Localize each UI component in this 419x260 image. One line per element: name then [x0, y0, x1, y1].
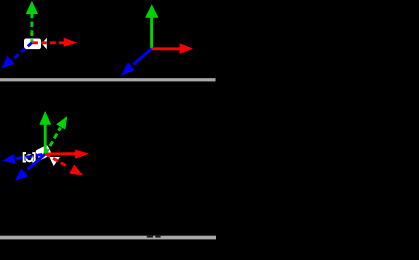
- camera frame z-axis dashed (green, up) shaft: [30, 14, 33, 43]
- body frame z-axis solid (blue, down-left) shaft: [28, 154, 46, 170]
- body frame x-axis (red) arrowhead: [75, 150, 89, 159]
- rotated camera z-axis dashed (blue) arrowhead: [2, 154, 16, 164]
- body frame y-axis (green) arrowhead: [39, 111, 51, 125]
- camera frame y-axis dashed (blue, down-left) shaft: [13, 43, 32, 60]
- world frame z-axis solid (blue, down-left) shaft: [134, 49, 152, 65]
- world frame y-axis (green) arrowhead: [145, 4, 158, 17]
- camera frame z-axis dashed (green) arrowhead: [26, 1, 38, 14]
- ground line (bottom scene): [0, 236, 216, 240]
- rotated camera y-axis dashed (green, up-right) shaft: [45, 128, 60, 154]
- frame label [c] : letter c: [26, 155, 32, 161]
- body frame z-axis (blue) arrowhead: [15, 168, 28, 181]
- frame label [c] : left bracket: [23, 152, 26, 162]
- world frame z-axis (blue) arrowhead: [121, 62, 135, 75]
- camera frame x-axis dashed (red, right) shaft: [32, 41, 64, 44]
- ground line (top scene): [0, 78, 216, 81]
- camera frame y-axis dashed (blue) arrowhead: [1, 56, 14, 69]
- camera icon (top-left, facing right) body: [24, 39, 41, 50]
- rotated camera x-axis dashed (red, down-right) shaft: [45, 154, 68, 167]
- camera icon (top-left) lens triangle: [42, 38, 47, 50]
- rotated camera z-axis dashed (blue, left) shaft: [15, 154, 46, 159]
- body frame y-axis solid (green, up) shaft: [44, 125, 47, 154]
- rotated camera x-axis dashed (red) arrowhead: [69, 165, 83, 176]
- camera icon (bottom, tilted) body: [35, 145, 52, 161]
- world frame x-axis (red) arrowhead: [180, 43, 193, 54]
- world frame x-axis solid (red, right) shaft: [152, 47, 181, 50]
- dark notch 1 on bottom ground line: [147, 236, 153, 238]
- camera frame x-axis dashed (red) arrowhead: [64, 38, 77, 47]
- camera icon (bottom) lens triangle: [49, 157, 60, 166]
- body frame x-axis solid (red, right) shaft: [45, 152, 76, 155]
- frame label [c] : right bracket: [32, 152, 35, 162]
- rotated camera y-axis dashed (green) arrowhead: [56, 116, 67, 130]
- world frame y-axis solid (green, up) shaft: [150, 17, 153, 49]
- dark notch 2 on bottom ground line: [155, 236, 160, 238]
